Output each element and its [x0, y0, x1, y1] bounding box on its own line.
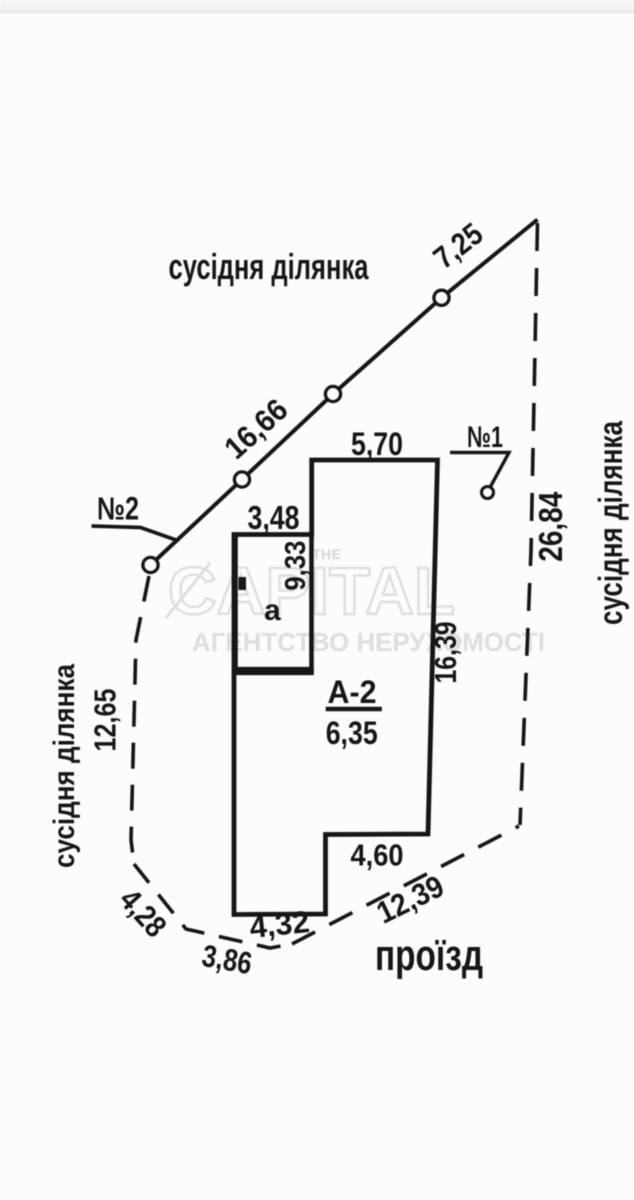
svg-text:проїзд: проїзд	[375, 931, 483, 980]
svg-text:сусідня ділянка: сусідня ділянка	[48, 664, 81, 868]
boundary solid polyline north	[151, 220, 538, 566]
svg-text:а: а	[264, 594, 281, 627]
survey point circle 3	[325, 386, 340, 401]
svg-text:4,32: 4,32	[248, 904, 311, 945]
building outline A-2	[234, 460, 438, 915]
boundary dashed south passage diagonal	[292, 826, 519, 944]
svg-text:№2: №2	[97, 491, 139, 527]
no1 point circle	[482, 487, 494, 499]
watermark C slash	[166, 563, 210, 618]
annex bottom thick wall	[232, 667, 314, 675]
boundary dashed south-west diagonal	[134, 864, 292, 948]
top scan strip	[0, 0, 634, 10]
top strip edge line	[0, 10, 634, 13]
svg-text:9,33: 9,33	[280, 541, 312, 591]
boundary dashed east side	[520, 223, 538, 825]
svg-text:сусідня ділянка: сусідня ділянка	[592, 420, 629, 625]
svg-text:26,84: 26,84	[532, 491, 569, 562]
svg-text:А-2: А-2	[328, 674, 377, 710]
svg-text:сусідня ділянка: сусідня ділянка	[169, 246, 370, 287]
svg-text:4,60: 4,60	[351, 838, 404, 873]
survey point circle 1	[143, 557, 158, 572]
door mark on annex left wall	[239, 577, 247, 590]
survey point circle 2	[234, 472, 249, 487]
svg-text:3,48: 3,48	[248, 499, 300, 536]
annex right wall	[309, 534, 314, 671]
svg-text:16,39: 16,39	[428, 622, 463, 684]
svg-text:12,65: 12,65	[88, 689, 123, 752]
annex left wall thicker	[232, 534, 238, 673]
svg-text:5,70: 5,70	[351, 426, 403, 462]
svg-text:№1: №1	[467, 421, 503, 454]
no1 leader	[450, 453, 509, 487]
boundary dashed west side	[131, 576, 149, 864]
svg-text:6,35: 6,35	[326, 715, 378, 751]
no2 leader	[92, 526, 177, 540]
A-2 underline	[326, 707, 382, 711]
survey point circle 4	[434, 290, 449, 305]
svg-text:АГЕНТСТВО НЕРУХОМОСТІ: АГЕНТСТВО НЕРУХОМОСТІ	[192, 627, 545, 657]
watermark logo group	[166, 546, 545, 657]
